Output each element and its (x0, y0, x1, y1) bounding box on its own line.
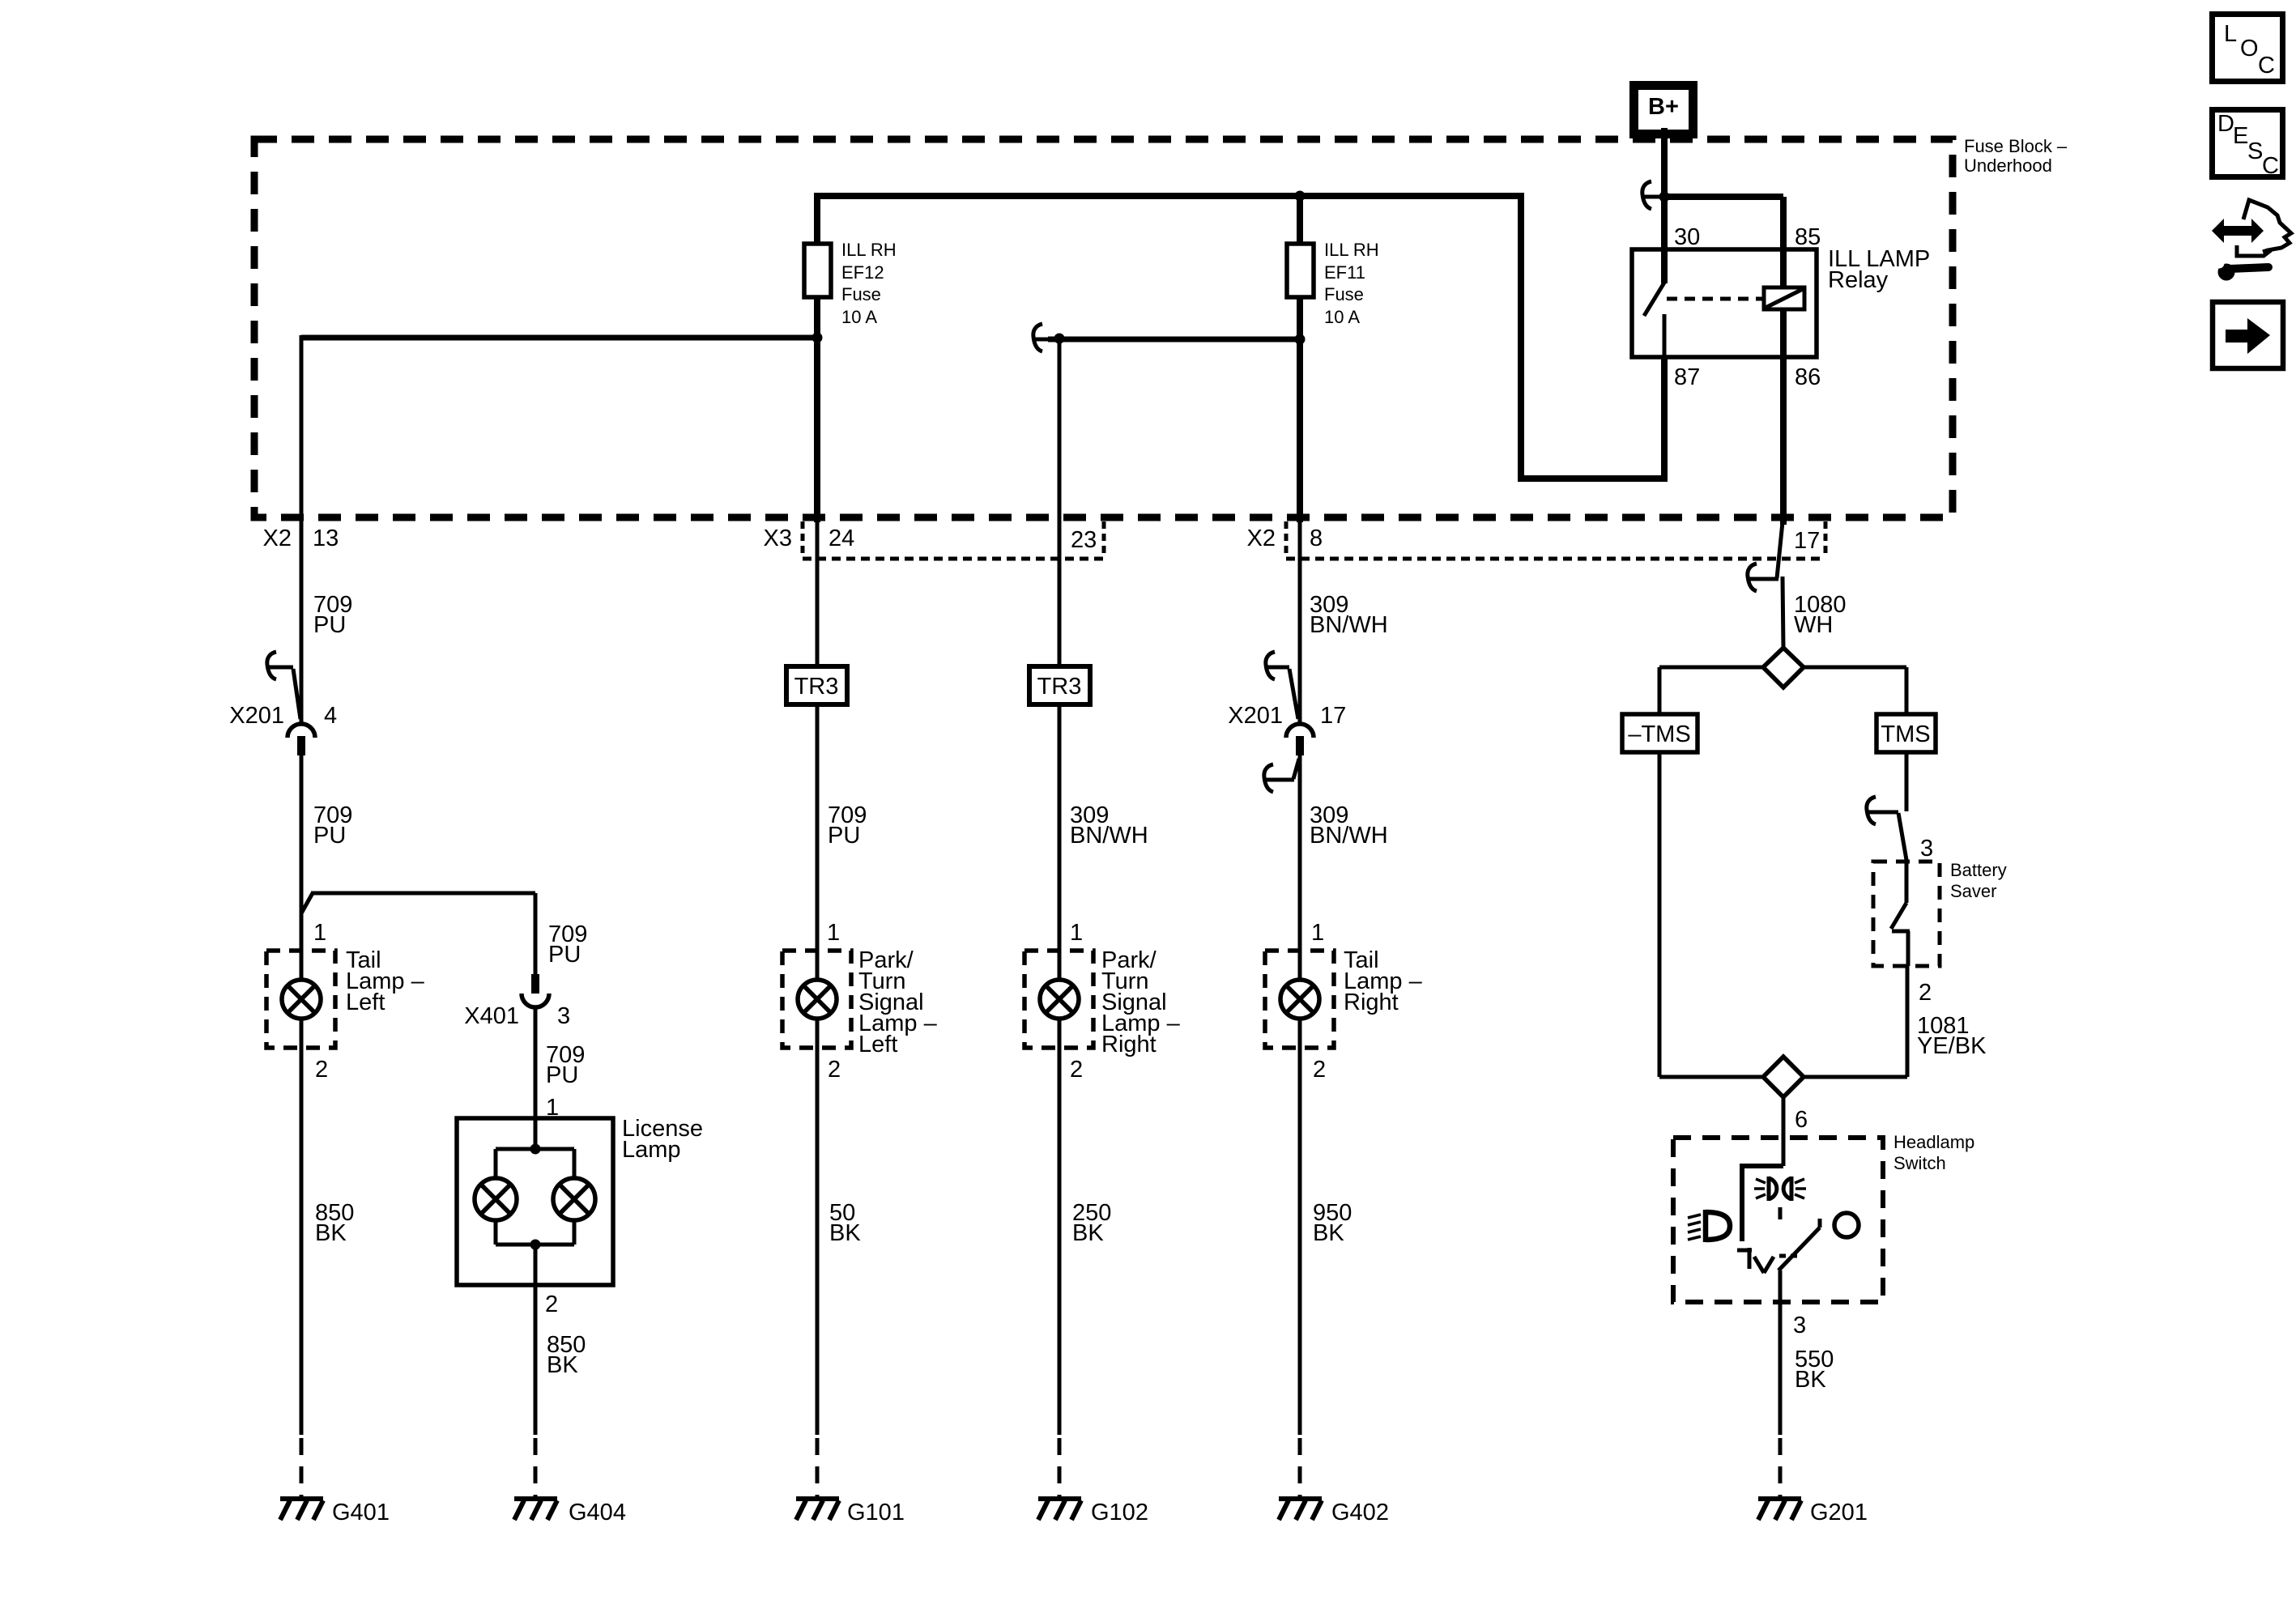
svg-text:24: 24 (829, 526, 854, 551)
svg-text:Left: Left (346, 989, 385, 1015)
svg-text:X401: X401 (464, 1003, 519, 1029)
svg-text:3: 3 (557, 1003, 570, 1029)
svg-text:BK: BK (315, 1220, 347, 1246)
svg-text:BN/WH: BN/WH (1310, 823, 1388, 849)
svg-text:PU: PU (828, 823, 860, 849)
svg-text:WH: WH (1794, 612, 1833, 638)
svg-text:EF11: EF11 (1324, 262, 1365, 283)
svg-text:87: 87 (1674, 364, 1700, 390)
svg-text:BN/WH: BN/WH (1310, 612, 1388, 638)
svg-text:S: S (2247, 138, 2263, 164)
svg-text:Right: Right (1344, 989, 1399, 1015)
svg-text:30: 30 (1674, 224, 1700, 250)
svg-text:Headlamp: Headlamp (1893, 1132, 1974, 1152)
svg-text:23: 23 (1071, 527, 1097, 553)
svg-text:Battery: Battery (1950, 860, 2007, 880)
svg-text:E: E (2233, 123, 2248, 149)
svg-text:X2: X2 (1247, 526, 1276, 551)
svg-text:2: 2 (1070, 1057, 1083, 1083)
svg-text:Fuse Block –: Fuse Block – (1964, 136, 2068, 156)
svg-text:PU: PU (548, 942, 581, 968)
svg-text:X201: X201 (1228, 703, 1283, 729)
svg-text:PU: PU (313, 612, 346, 638)
svg-text:3: 3 (1793, 1313, 1806, 1338)
svg-text:ILL RH: ILL RH (1324, 240, 1379, 260)
svg-text:8: 8 (1310, 526, 1323, 551)
svg-text:G401: G401 (332, 1500, 390, 1526)
svg-text:B+: B+ (1648, 94, 1679, 120)
svg-text:BK: BK (1072, 1220, 1104, 1246)
svg-text:G101: G101 (847, 1500, 905, 1526)
svg-text:BK: BK (547, 1352, 578, 1378)
svg-text:85: 85 (1795, 224, 1821, 250)
svg-text:YE/BK: YE/BK (1917, 1033, 1987, 1059)
svg-text:G402: G402 (1331, 1500, 1389, 1526)
svg-text:BN/WH: BN/WH (1070, 823, 1148, 849)
svg-text:3: 3 (1920, 836, 1933, 862)
svg-text:10 A: 10 A (1324, 307, 1360, 327)
svg-text:G404: G404 (569, 1500, 626, 1526)
svg-text:Underhood: Underhood (1964, 155, 2052, 176)
svg-text:L: L (2224, 21, 2237, 47)
svg-text:1: 1 (1070, 920, 1083, 946)
svg-text:G201: G201 (1810, 1500, 1868, 1526)
svg-text:2: 2 (545, 1291, 558, 1317)
svg-text:–TMS: –TMS (1628, 721, 1690, 747)
svg-text:86: 86 (1795, 364, 1821, 390)
svg-text:Switch: Switch (1893, 1153, 1946, 1173)
svg-text:13: 13 (313, 526, 339, 551)
svg-text:BK: BK (1313, 1220, 1344, 1246)
svg-text:BK: BK (829, 1220, 861, 1246)
svg-text:Saver: Saver (1950, 881, 1996, 901)
svg-text:ILL RH: ILL RH (841, 240, 897, 260)
svg-text:Lamp: Lamp (622, 1137, 681, 1163)
svg-text:BK: BK (1795, 1367, 1826, 1393)
svg-text:Right: Right (1101, 1032, 1157, 1057)
svg-text:C: C (2262, 153, 2279, 179)
svg-text:C: C (2258, 53, 2275, 79)
svg-text:2: 2 (1313, 1057, 1326, 1083)
svg-text:2: 2 (1919, 980, 1932, 1006)
svg-text:TMS: TMS (1881, 721, 1930, 747)
svg-text:17: 17 (1320, 703, 1346, 729)
svg-text:6: 6 (1795, 1107, 1808, 1133)
svg-text:17: 17 (1794, 528, 1820, 554)
svg-text:TR3: TR3 (794, 674, 839, 700)
svg-text:1: 1 (827, 920, 840, 946)
svg-text:2: 2 (828, 1057, 841, 1083)
svg-text:G102: G102 (1091, 1500, 1148, 1526)
svg-text:X201: X201 (229, 703, 284, 729)
svg-text:D: D (2217, 111, 2234, 137)
svg-text:X3: X3 (764, 526, 792, 551)
svg-text:Fuse: Fuse (841, 284, 881, 304)
svg-text:Left: Left (858, 1032, 897, 1057)
svg-text:PU: PU (546, 1062, 578, 1088)
svg-text:1: 1 (1311, 920, 1324, 946)
svg-text:2: 2 (315, 1057, 328, 1083)
svg-text:TR3: TR3 (1037, 674, 1082, 700)
svg-text:EF12: EF12 (841, 262, 884, 283)
svg-text:Relay: Relay (1828, 267, 1889, 293)
svg-text:Fuse: Fuse (1324, 284, 1364, 304)
svg-text:10 A: 10 A (841, 307, 877, 327)
svg-text:X2: X2 (263, 526, 292, 551)
svg-text:PU: PU (313, 823, 346, 849)
svg-text:1: 1 (313, 920, 326, 946)
svg-text:4: 4 (324, 703, 337, 729)
svg-text:O: O (2240, 36, 2259, 62)
